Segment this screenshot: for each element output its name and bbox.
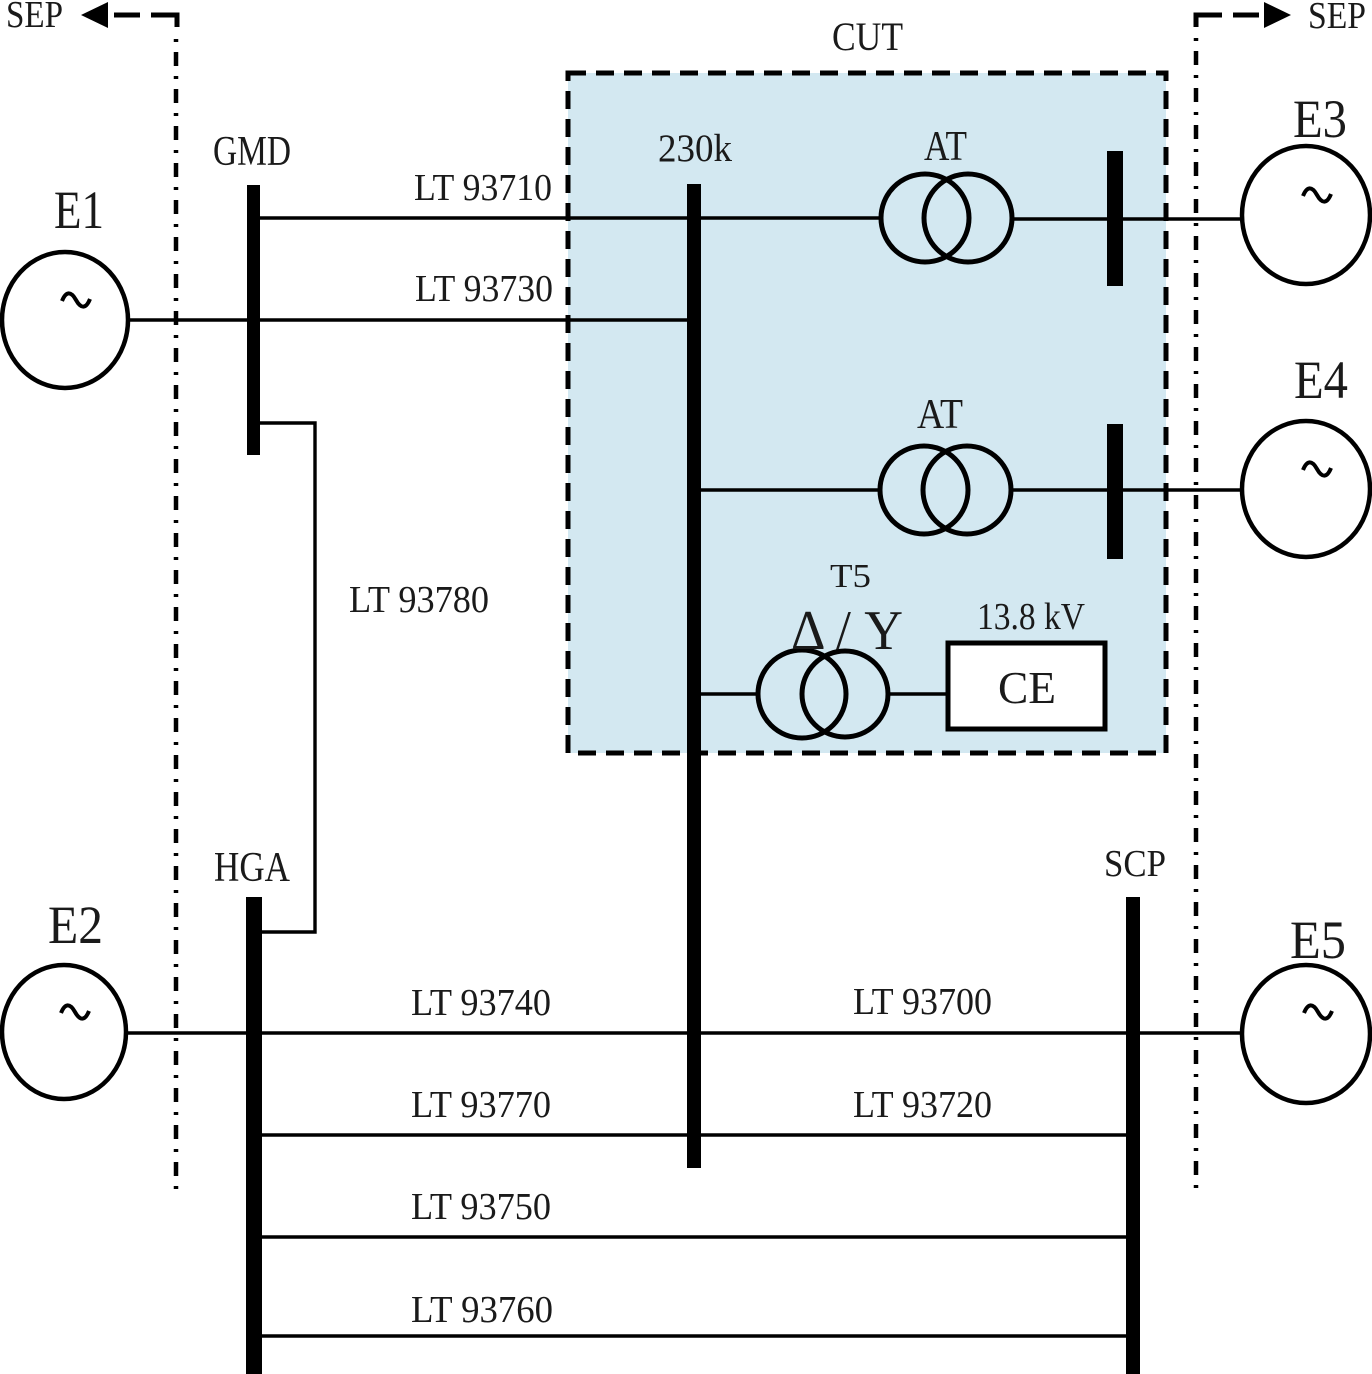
- transformer AT1: [881, 124, 1012, 262]
- svg-text:LT 93730: LT 93730: [415, 268, 553, 310]
- SEP arrow right: [1196, 0, 1366, 37]
- generator E4: [1242, 350, 1370, 557]
- svg-text:AT: AT: [917, 392, 963, 438]
- wire T5 row: [694, 692, 759, 695]
- svg-text:LT 93700: LT 93700: [853, 981, 992, 1023]
- generator E1: [2, 180, 128, 388]
- wire LT 93760 row: [254, 1334, 1133, 1337]
- svg-text:AT: AT: [924, 124, 967, 170]
- svg-text:CUT: CUT: [832, 14, 903, 59]
- wire AT2 row: 230k bus to AT to E4: [694, 488, 880, 491]
- bus GMD: [247, 185, 260, 455]
- svg-text:LT 93710: LT 93710: [414, 167, 552, 209]
- svg-text:LT 93740: LT 93740: [411, 982, 551, 1024]
- svg-text:SEP: SEP: [6, 0, 63, 36]
- svg-text:LT 93760: LT 93760: [411, 1289, 553, 1331]
- svg-text:E5: E5: [1290, 910, 1346, 970]
- wire LT 93740 / LT 93700 row: E2 to E5: [128, 1031, 1242, 1034]
- svg-text:E4: E4: [1294, 350, 1348, 410]
- svg-text:LT 93750: LT 93750: [411, 1186, 551, 1228]
- svg-text:Δ / Y: Δ / Y: [791, 600, 903, 662]
- SEP arrow left: [6, 0, 177, 36]
- svg-text:GMD: GMD: [213, 129, 291, 175]
- svg-text:T5: T5: [830, 558, 871, 595]
- svg-text:SCP: SCP: [1104, 843, 1166, 885]
- svg-text:SEP: SEP: [1308, 0, 1366, 37]
- svg-text:230k: 230k: [658, 127, 732, 170]
- CUT region (dashed box, light blue fill): [568, 73, 1166, 753]
- svg-text:CE: CE: [998, 662, 1056, 713]
- wire AT to E3: [1011, 217, 1243, 220]
- wire LT 93780: GMD to HGA: [260, 423, 315, 932]
- SEP boundary left (dash-dot line): [174, 39, 179, 1197]
- wire LT 93710 row: GMD to AT: [260, 216, 881, 219]
- generator E2: [2, 895, 126, 1099]
- bus 230k: [687, 184, 701, 1168]
- wire LT 93770 / LT 93720 row: [254, 1133, 1133, 1136]
- bus HGA: [246, 897, 262, 1374]
- svg-text:LT 93780: LT 93780: [349, 579, 489, 621]
- svg-text:E3: E3: [1293, 89, 1347, 149]
- bus SCP: [1126, 897, 1140, 1374]
- svg-text:13.8 kV: 13.8 kV: [977, 596, 1085, 638]
- wire LT 93730 row: E1 to 230k bus: [128, 318, 694, 321]
- generator E5: [1242, 910, 1370, 1103]
- svg-text:E2: E2: [48, 895, 103, 955]
- bus E4 side: [1107, 424, 1123, 559]
- load CE box: [948, 596, 1105, 729]
- generator E3: [1242, 89, 1370, 284]
- bus E3 side: [1107, 151, 1123, 286]
- svg-text:E1: E1: [54, 180, 104, 240]
- wire LT 93750 row: [254, 1235, 1133, 1238]
- transformer AT2: [880, 392, 1011, 534]
- transformer T5: [758, 558, 903, 738]
- svg-text:LT 93720: LT 93720: [853, 1084, 992, 1126]
- svg-text:LT 93770: LT 93770: [411, 1084, 551, 1126]
- svg-text:HGA: HGA: [214, 845, 291, 891]
- SEP boundary right (dash-dot line): [1194, 38, 1199, 1193]
